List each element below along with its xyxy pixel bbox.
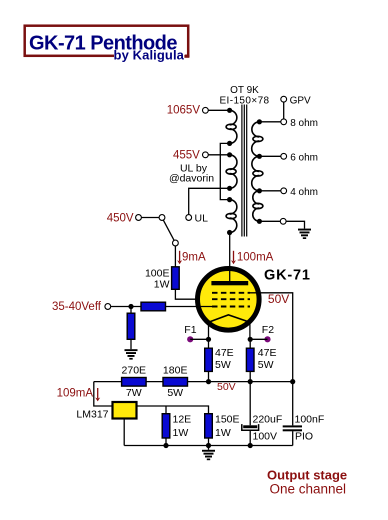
node rail 47E right [248,379,253,384]
wire GPV to 8ohm [283,102,285,119]
svg-text:100nF: 100nF [295,413,325,425]
tube V1 GK-71 [198,266,260,339]
wire 150E bottom [208,438,210,446]
wire 47E right bottom [249,371,251,381]
node F2 junction [248,337,253,342]
svg-text:47E: 47E [258,347,277,359]
node primary s1 bottom [227,141,232,146]
terminal 1065V [203,107,209,113]
wire cathode right [249,339,251,348]
wire UL tap [189,188,230,214]
svg-text:@davorin: @davorin [169,172,214,184]
svg-text:F2: F2 [262,324,274,336]
node secondary 6ohm [257,154,262,159]
svg-text:1W: 1W [173,427,189,439]
resistor grid leak [127,313,135,339]
transformer secondary winding section 3 [253,191,263,222]
resistor 100E [172,267,180,290]
resistor grid stopper [141,302,166,311]
terminal 6 ohm [281,153,287,159]
current arrow 100mA [231,251,236,264]
node F1 junction [206,337,211,342]
terminal secondary bottom [280,218,286,224]
resistor 150E [205,414,213,438]
wire primary bottom to anode [229,233,231,282]
resistor 270E [122,378,147,387]
transformer secondary winding section 2 [252,156,263,190]
transformer core [242,105,247,237]
wire input [111,306,141,308]
transformer secondary winding section 1 [252,122,263,156]
terminal F1 [187,336,193,342]
terminal UL [186,215,192,221]
node bottom 220uF [248,443,253,448]
svg-text:5W: 5W [258,359,274,371]
wire to secondary ground [286,221,304,228]
resistor 47E left [205,348,213,371]
capacitor 220uF [242,382,259,446]
resistor 12E [162,414,170,438]
resistor 47E right [246,348,254,371]
capacitor 100nF [283,425,302,445]
node secondary bottom [257,219,262,224]
wire grid leak to ground [130,339,132,349]
wire to g1 [166,306,214,308]
svg-text:100mA: 100mA [237,252,274,264]
svg-text:1W: 1W [154,279,170,291]
wire LM317 output rail [137,406,209,414]
node rail 47E left [206,379,211,384]
terminal 4 ohm [281,188,287,194]
terminal GPV [281,96,287,102]
svg-text:F1: F1 [184,324,196,336]
svg-text:109mA: 109mA [57,387,94,399]
svg-text:Output stage: Output stage [267,468,347,483]
wire 12E stub [165,406,167,414]
svg-text:180E: 180E [163,365,188,377]
svg-text:150E: 150E [215,413,240,425]
switch S1 [136,215,179,246]
svg-text:4 ohm: 4 ohm [290,187,318,198]
wire 100E to g2 [175,289,213,299]
node bottom 150E [206,443,211,448]
resistor 180E [163,378,188,387]
wire primary section jumper [220,143,229,199]
svg-text:1065V: 1065V [167,105,201,117]
wire g3 to 50V rail [250,293,293,426]
wire 455V to primary tap [208,154,229,156]
svg-text:220uF: 220uF [253,413,283,425]
svg-text:PIO: PIO [295,431,313,443]
svg-text:OT 9K: OT 9K [230,85,259,96]
title box [25,26,190,63]
svg-text:47E: 47E [215,347,234,359]
node primary bottom [227,230,232,235]
wire 1065V to primary top [208,109,229,111]
node primary UL [227,186,232,191]
svg-text:12E: 12E [173,413,192,425]
wire LM317 adj pin [123,419,125,446]
current arrow 109mA [95,388,100,401]
svg-text:GPV: GPV [290,95,311,106]
ground grid leak [125,349,138,359]
svg-text:450V: 450V [107,213,134,225]
svg-text:1W: 1W [215,427,231,439]
node bottom 12E [163,443,168,448]
wire ground stem [208,446,210,450]
wire grid leak top [130,307,132,314]
wire 4 ohm tap [259,190,280,192]
wire F1 [190,338,208,340]
svg-text:LM317: LM317 [76,408,108,420]
svg-text:6 ohm: 6 ohm [290,152,318,163]
regulator LM317 [113,402,137,419]
transformer primary winding section 1 [226,110,237,143]
ground secondary [298,229,311,239]
wire 8 ohm tap [259,121,280,123]
wire bottom rail [124,445,293,447]
svg-text:8 ohm: 8 ohm [290,118,318,129]
wire 47E left bottom [208,371,210,381]
svg-text:UL: UL [195,213,209,225]
svg-text:455V: 455V [173,149,200,161]
transformer primary winding section 3 [226,200,237,233]
wire rail to LM317 [94,382,113,406]
svg-text:7W: 7W [126,387,142,399]
svg-text:One channel: One channel [270,482,347,497]
node grid input [128,304,133,309]
current arrow 9mA [177,251,182,264]
node secondary top [257,119,262,124]
terminal input [105,304,111,310]
svg-text:GK-71: GK-71 [264,268,311,284]
svg-text:50V: 50V [268,292,289,306]
wire cathode left [208,339,210,348]
node primary 1065V [227,108,232,113]
terminal 8 ohm [281,119,287,125]
ground bottom [202,450,215,460]
svg-text:50V: 50V [217,381,236,393]
wire secondary bottom [259,220,280,222]
svg-text:5W: 5W [215,359,231,371]
terminal 455V [203,152,209,158]
node primary 455V [227,152,232,157]
wire switch to 100E [174,246,176,267]
svg-text:5W: 5W [167,387,183,399]
wire F2 [250,338,267,340]
transformer primary winding section 2 [226,155,237,189]
svg-text:270E: 270E [122,365,147,377]
wire 6 ohm tap [259,155,280,157]
terminal F2 [264,336,270,342]
node rail g3 [290,379,295,384]
svg-text:35-40Veff: 35-40Veff [52,301,102,313]
wire 12E bottom [165,438,167,446]
svg-text:100V: 100V [253,431,278,443]
svg-text:9mA: 9mA [182,252,206,264]
svg-text:by Kaligula: by Kaligula [114,48,185,63]
node primary s3 top [227,197,232,202]
wire 50V rail [94,381,293,383]
node secondary 4ohm [257,188,262,193]
